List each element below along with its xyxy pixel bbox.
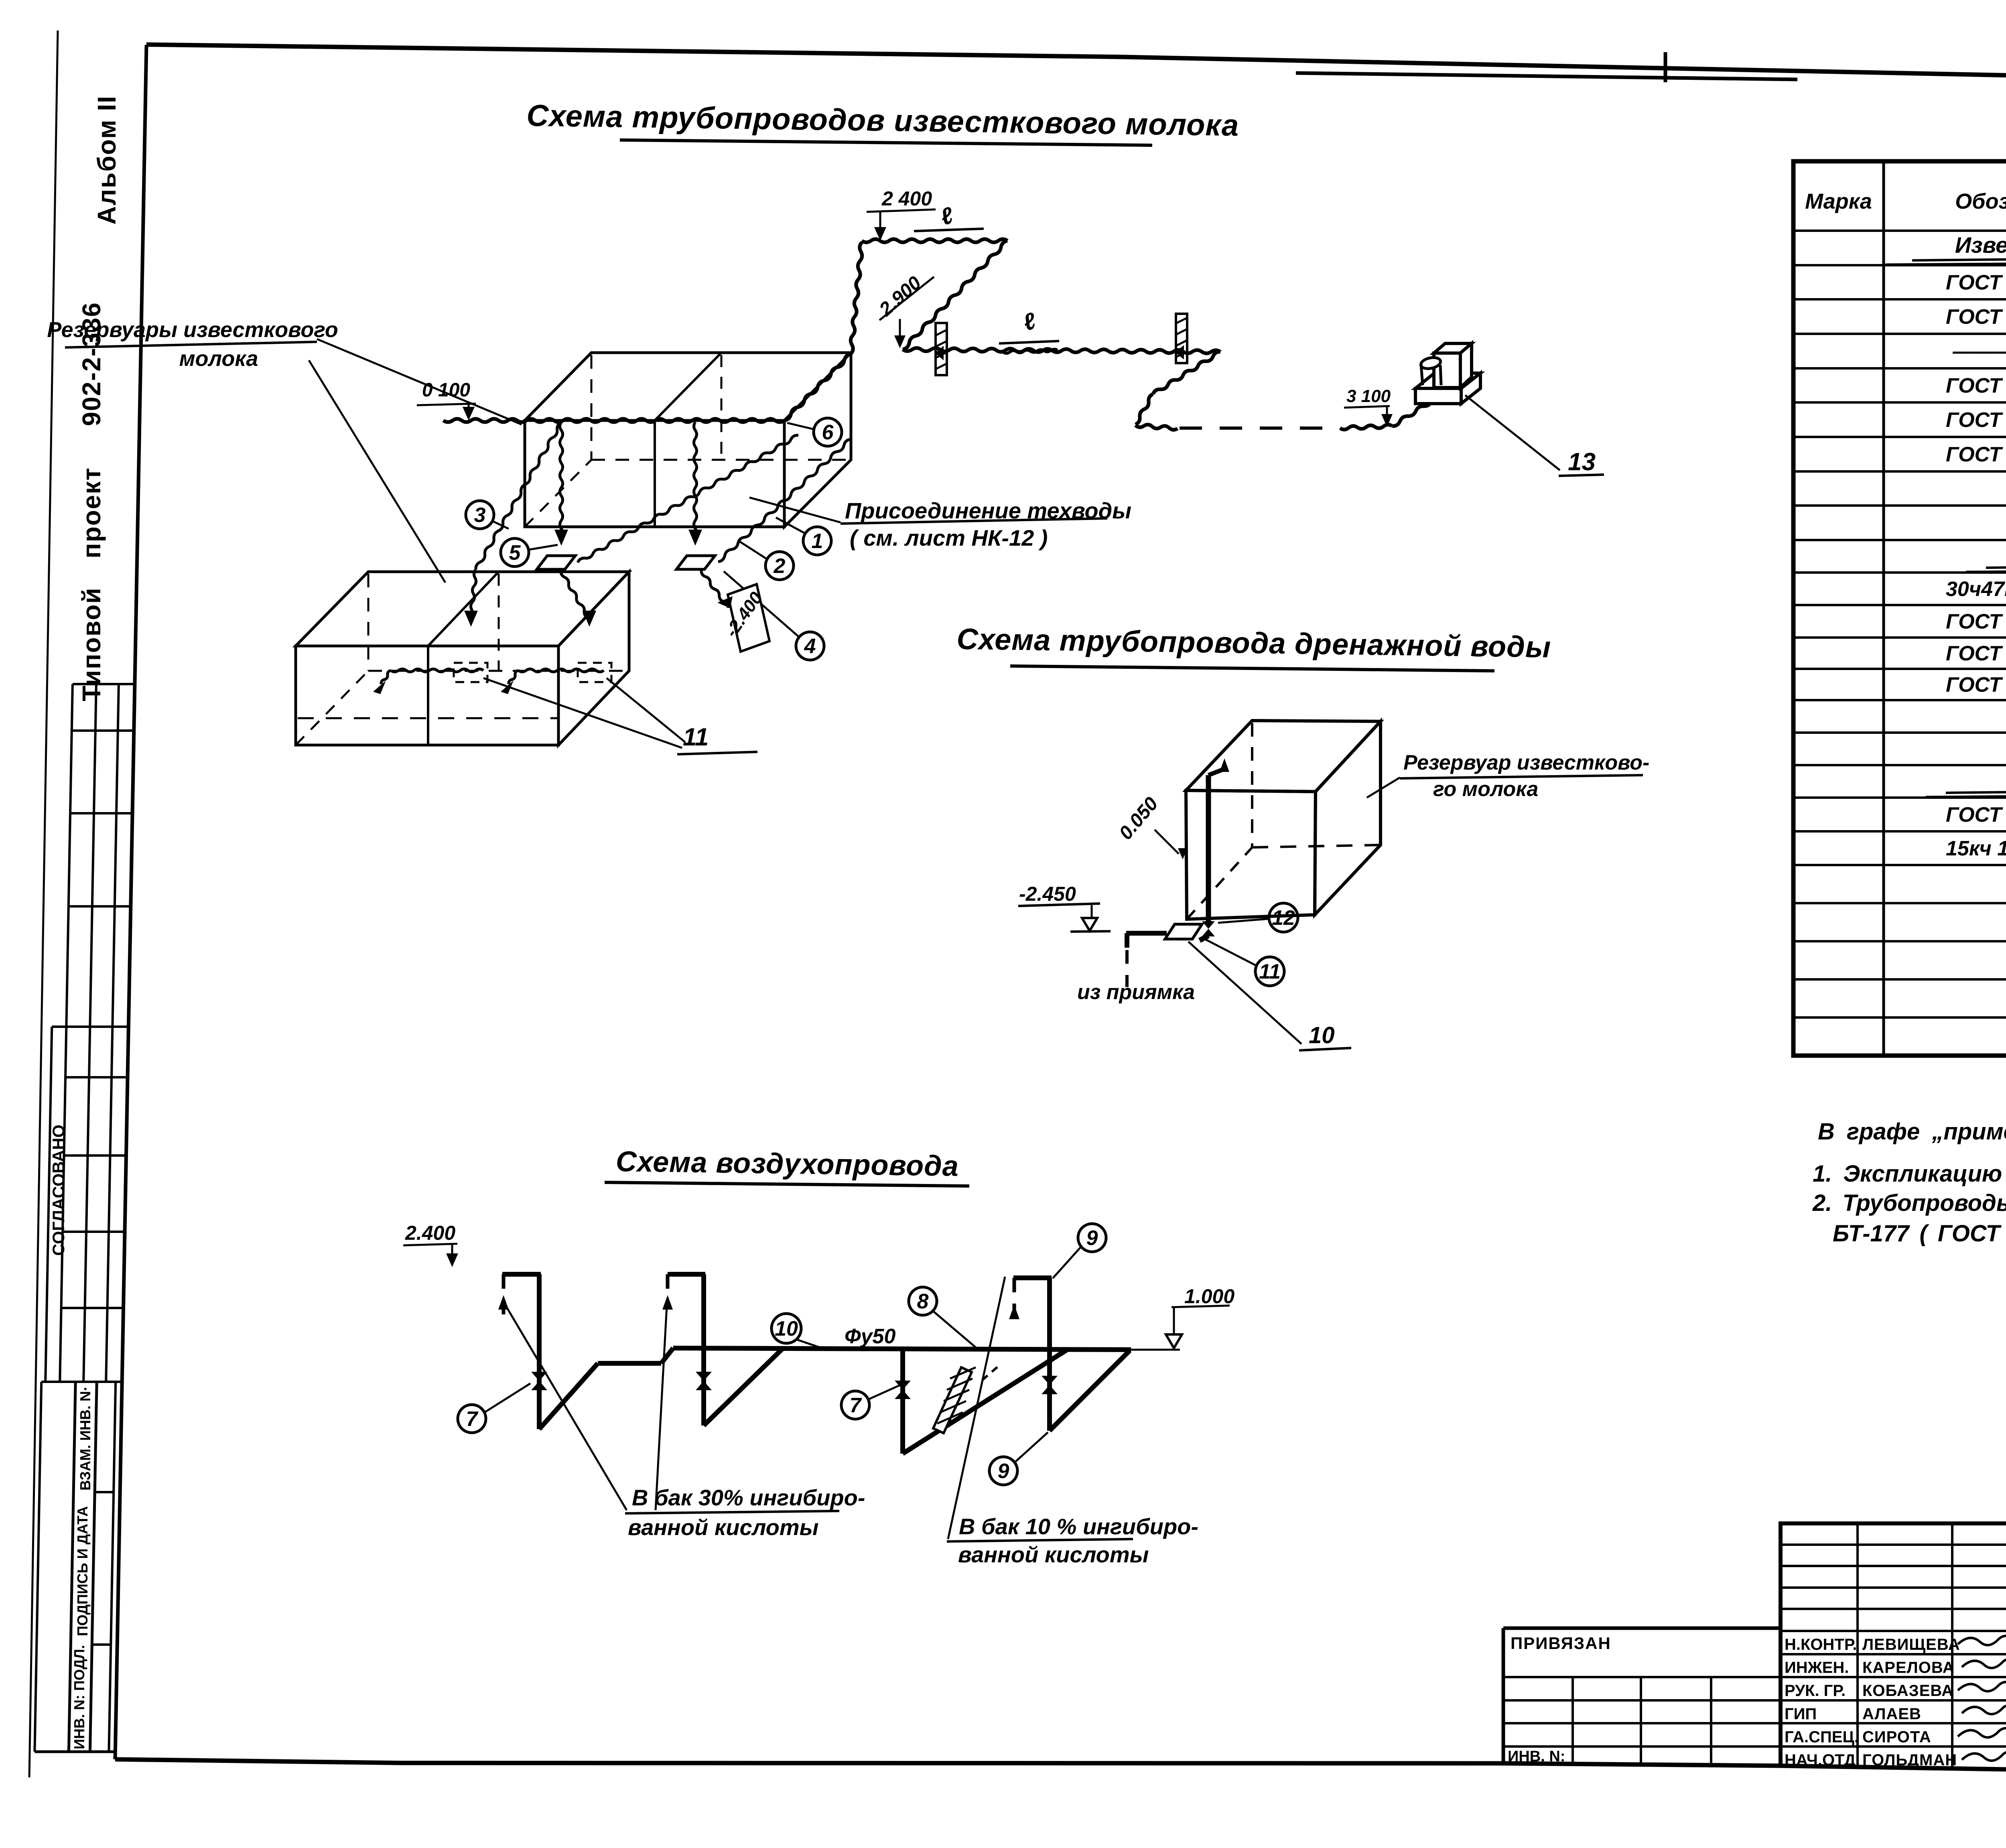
svg-text:11: 11 xyxy=(683,723,709,751)
svg-text:ГОСТ 10704-76: ГОСТ 10704-76 xyxy=(1946,803,2006,827)
svg-text:ГОСТ 17376-77: ГОСТ 17376-77 xyxy=(1946,443,2006,466)
spec table column lines xyxy=(1882,161,1885,1056)
air main line left segment xyxy=(598,1361,661,1366)
svg-text:ИНВ. N: ПОДЛ.: ИНВ. N: ПОДЛ. xyxy=(71,1645,87,1749)
svg-text:3: 3 xyxy=(474,504,486,527)
discharge pipe lower right compartment xyxy=(518,669,604,672)
label 10 with leader xyxy=(1188,942,1301,1044)
reservoir lower box front face xyxy=(296,646,558,745)
reservoir lower box hidden edges dashed xyxy=(367,574,370,671)
elevation flag -2.400 xyxy=(728,584,770,652)
svg-text:1. Экспликацию оборудования: 1. Экспликацию оборудования см. лист НК-… xyxy=(1813,1161,2006,1187)
svg-text:11: 11 xyxy=(1259,960,1281,983)
svg-text:В бак 10 % ингибиро-: В бак 10 % ингибиро- xyxy=(959,1514,1198,1539)
air unit 3 drop xyxy=(900,1350,905,1454)
leader to 30 percent label right xyxy=(656,1306,667,1510)
svg-text:ГОСТ 10704-78: ГОСТ 10704-78 xyxy=(1946,271,2006,294)
svg-text:5: 5 xyxy=(509,541,521,565)
drain pipe lower run xyxy=(1200,936,1208,940)
air valve 7 fourth xyxy=(1042,1376,1058,1385)
drainage reservoir hidden edges dashed xyxy=(1251,723,1253,847)
reservoir upper box right face xyxy=(784,353,851,527)
svg-text:Фу50: Фу50 xyxy=(845,1325,895,1348)
drain funnel 11 xyxy=(1165,924,1202,939)
svg-text:2.400: 2.400 xyxy=(405,1222,455,1244)
sidebar upper table xyxy=(73,683,135,685)
title block signature table xyxy=(1781,1523,2006,1770)
svg-text:СОГЛАСОВАНО: СОГЛАСОВАНО xyxy=(49,1125,68,1256)
reservoir lower box top face xyxy=(296,572,629,646)
riser into left compartment xyxy=(560,422,563,537)
hose symbol hatched xyxy=(933,1367,972,1433)
circled number 7 first xyxy=(458,1405,486,1433)
frame top border xyxy=(146,45,2006,87)
pipe from left funnel into lower tank xyxy=(561,571,588,618)
air valve 7 second xyxy=(696,1372,712,1381)
pipe dashed continuation xyxy=(1180,426,1340,430)
drainage reservoir front face xyxy=(1186,790,1316,919)
sump outline left dashed xyxy=(454,663,487,682)
svg-text:ГОСТ 18698-73: ГОСТ 18698-73 xyxy=(1946,305,2006,329)
privyazan block xyxy=(1503,1627,1781,1630)
sidebar lower table xyxy=(35,1382,41,1752)
svg-text:2: 2 xyxy=(774,554,786,578)
svg-text:Марка: Марка xyxy=(1805,189,1872,213)
drain valve 12 xyxy=(1202,921,1215,929)
pipe riser xyxy=(851,242,862,354)
svg-text:НАЧ.ОТД.: НАЧ.ОТД. xyxy=(1785,1751,1860,1769)
svg-text:СИРОТА: СИРОТА xyxy=(1862,1728,1931,1746)
svg-text:ГОСТ 17376-77: ГОСТ 17376-77 xyxy=(1946,673,2006,697)
svg-text:из приямка: из приямка xyxy=(1077,981,1195,1004)
circled number 11 xyxy=(1255,957,1284,986)
spec table horizontal lines xyxy=(1793,229,2006,232)
circled number 8 xyxy=(909,1287,937,1315)
frame left border xyxy=(115,45,146,1759)
svg-text:Резервуар известково-: Резервуар известково- xyxy=(1403,751,1649,774)
svg-text:Н.КОНТР.: Н.КОНТР. xyxy=(1785,1636,1857,1653)
svg-text:ПРИВЯЗАН: ПРИВЯЗАН xyxy=(1511,1634,1611,1653)
svg-text:-2.450: -2.450 xyxy=(1019,883,1076,905)
circled number 7 second xyxy=(841,1391,869,1419)
svg-text:го молока: го молока xyxy=(1433,778,1538,801)
air unit 4 bottom diagonal xyxy=(1050,1350,1130,1431)
svg-text:ГОСТ 17378-77: ГОСТ 17378-77 xyxy=(1946,374,2006,398)
svg-text:БТ-177 ( ГОСТ 5631-70 * ).: БТ-177 ( ГОСТ 5631-70 * ). xyxy=(1833,1220,2006,1247)
reservoir lower box division wall xyxy=(427,646,429,745)
air unit 4 riser xyxy=(1013,1275,1052,1280)
drainage reservoir right face xyxy=(1315,721,1381,915)
svg-text:Известковое: Известковое xyxy=(1955,232,2006,258)
pipe 3 diagonal into lower tank xyxy=(476,422,562,570)
circled number 4 xyxy=(796,632,824,660)
svg-text:Схема воздухопровода: Схема воздухопровода xyxy=(615,1145,959,1182)
circled number 12 xyxy=(1269,903,1298,932)
reservoir upper box top face xyxy=(525,353,851,420)
discharge pipe lower left compartment xyxy=(391,669,483,672)
svg-text:ГОСТ 17378-77: ГОСТ 17378-77 xyxy=(1946,408,2006,432)
svg-text:ванной кислоты: ванной кислоты xyxy=(958,1542,1149,1567)
svg-text:ванной кислоты: ванной кислоты xyxy=(628,1515,819,1540)
spec table outer frame xyxy=(1793,161,2006,1056)
svg-text:3 100: 3 100 xyxy=(1346,386,1391,406)
svg-text:0 100: 0 100 xyxy=(422,380,470,401)
leader to 30 percent label left xyxy=(505,1304,627,1510)
svg-text:2. Трубопроводы окрасить: 2. Трубопроводы окрасить двумя слоями кр… xyxy=(1812,1190,2006,1216)
svg-text:12: 12 xyxy=(1272,906,1295,930)
svg-text:В бак 30% ингибиро-: В бак 30% ингибиро- xyxy=(632,1485,865,1510)
circled number 9 top xyxy=(1078,1224,1106,1252)
svg-text:( см. лист НК-12 ): ( см. лист НК-12 ) xyxy=(850,525,1048,550)
svg-text:ГИП: ГИП xyxy=(1785,1705,1817,1723)
drain pipe riser in tank xyxy=(1206,775,1211,922)
air unit 2 riser xyxy=(668,1272,705,1277)
svg-text:ГОСТ 10704-76: ГОСТ 10704-76 xyxy=(1946,610,2006,634)
circled number 2 xyxy=(765,552,794,580)
svg-text:ГОЛЬДМАН: ГОЛЬДМАН xyxy=(1862,1751,1957,1769)
svg-text:ГА.СПЕЦ.: ГА.СПЕЦ. xyxy=(1785,1728,1859,1746)
svg-text:Обозначение: Обозначение xyxy=(1955,189,2006,213)
frame top border tick xyxy=(1664,52,1667,82)
svg-text:В графе „примечание" указан: В графе „примечание" указана масса едини… xyxy=(1818,1119,2006,1145)
svg-text:ПОДПИСЬ И ДАТА: ПОДПИСЬ И ДАТА xyxy=(74,1506,91,1636)
pipe 3 long run xyxy=(903,348,1220,353)
leader to upper reservoir xyxy=(317,339,522,424)
frame bottom border xyxy=(115,1759,2006,1775)
svg-text:7: 7 xyxy=(466,1407,479,1431)
svg-text:9: 9 xyxy=(1086,1227,1098,1250)
svg-text:проект: проект xyxy=(77,467,106,558)
svg-text:9: 9 xyxy=(998,1460,1009,1483)
svg-text:Резервуары известкового: Резервуары известкового xyxy=(47,318,338,342)
svg-text:15кч 18р2: 15кч 18р2 xyxy=(1946,837,2006,860)
svg-text:30ч47Бр: 30ч47Бр xyxy=(1946,578,2006,601)
circled number 10 air xyxy=(772,1314,801,1343)
circled number 5 xyxy=(501,538,529,567)
pipe from right funnel down xyxy=(701,571,728,608)
svg-text:10: 10 xyxy=(1309,1022,1335,1048)
pipe 1 run along tank top xyxy=(443,419,784,422)
leader to lower reservoir xyxy=(309,360,445,583)
svg-text:ИНЖЕН.: ИНЖЕН. xyxy=(1785,1659,1849,1677)
pipe short run xyxy=(1135,424,1178,430)
air main line xyxy=(673,1348,1131,1350)
label 11 with leaders xyxy=(483,678,682,748)
reservoir upper box division wall xyxy=(654,420,656,527)
drainage reservoir top face xyxy=(1186,721,1381,792)
svg-text:10: 10 xyxy=(775,1317,798,1340)
leader to label 13 xyxy=(1465,395,1560,470)
sheet edge line xyxy=(29,30,58,1777)
item 13 pump assembly xyxy=(1415,388,1461,404)
svg-text:ИНВ. N:: ИНВ. N: xyxy=(1508,1748,1565,1765)
reservoir upper box hidden edges dashed xyxy=(591,355,593,460)
air valve 7 third xyxy=(895,1381,911,1390)
svg-text:2 400: 2 400 xyxy=(881,187,932,210)
svg-text:1: 1 xyxy=(812,530,823,553)
hose symbol on long run first xyxy=(936,323,947,375)
air unit 2 bottom diagonal xyxy=(704,1348,783,1426)
svg-text:1.000: 1.000 xyxy=(1184,1285,1234,1308)
sump outline right dashed xyxy=(578,663,611,682)
funnel right xyxy=(676,556,715,569)
pipe drop diagonal xyxy=(903,241,1007,349)
circled number 3 xyxy=(466,501,494,529)
svg-text:Альбом II: Альбом II xyxy=(92,95,121,225)
pipe rise to item 13 xyxy=(1340,424,1392,429)
reservoir lower box right face xyxy=(558,572,629,745)
svg-text:ВЗАМ. ИНВ. N·: ВЗАМ. ИНВ. N· xyxy=(77,1386,93,1491)
svg-text:молока: молока xyxy=(179,347,258,371)
svg-text:ГОСТ 17375-77: ГОСТ 17375-77 xyxy=(1946,642,2006,665)
svg-text:13: 13 xyxy=(1568,448,1596,476)
air unit 3 bottom diagonal xyxy=(903,1350,1067,1454)
air unit 1 riser xyxy=(502,1272,541,1277)
air unit 1 bottom diagonal xyxy=(539,1363,598,1429)
hose symbol on long run second xyxy=(1176,314,1187,363)
svg-text:АЛАЕВ: АЛАЕВ xyxy=(1862,1705,1921,1723)
frame top border overlap segment xyxy=(1296,73,1797,79)
pipe corner segment xyxy=(784,354,851,420)
svg-text:КОБАЗЕВА: КОБАЗЕВА xyxy=(1862,1682,1953,1700)
pipe run at 2.400 xyxy=(862,239,1007,242)
svg-text:РУК. ГР.: РУК. ГР. xyxy=(1785,1682,1846,1700)
leader to 10 percent label xyxy=(948,1277,1005,1539)
riser into right compartment xyxy=(694,422,697,537)
circled number 6 xyxy=(814,418,842,446)
svg-text:4: 4 xyxy=(804,635,816,658)
svg-text:7: 7 xyxy=(850,1394,862,1417)
pipe diagonal to right funnel xyxy=(718,439,851,562)
svg-text:——— ″ ———: ——— ″ ——— xyxy=(1952,340,2006,363)
circled number 9 bottom xyxy=(989,1457,1017,1485)
svg-text:КАРЕЛОВА: КАРЕЛОВА xyxy=(1862,1659,1955,1677)
air valve 7 first xyxy=(531,1372,547,1381)
svg-text:8: 8 xyxy=(917,1290,929,1313)
svg-text:ЛЕВИЩЕВА: ЛЕВИЩЕВА xyxy=(1862,1636,1960,1653)
pipe diagonal from right side to left funnel xyxy=(578,435,798,563)
circled number 1 xyxy=(803,527,831,555)
reservoir upper box front face xyxy=(525,420,784,527)
funnel left xyxy=(537,556,575,569)
svg-text:6: 6 xyxy=(822,421,834,444)
pipe zigzag down xyxy=(1153,352,1220,394)
drain pipe from pit xyxy=(1126,931,1167,936)
